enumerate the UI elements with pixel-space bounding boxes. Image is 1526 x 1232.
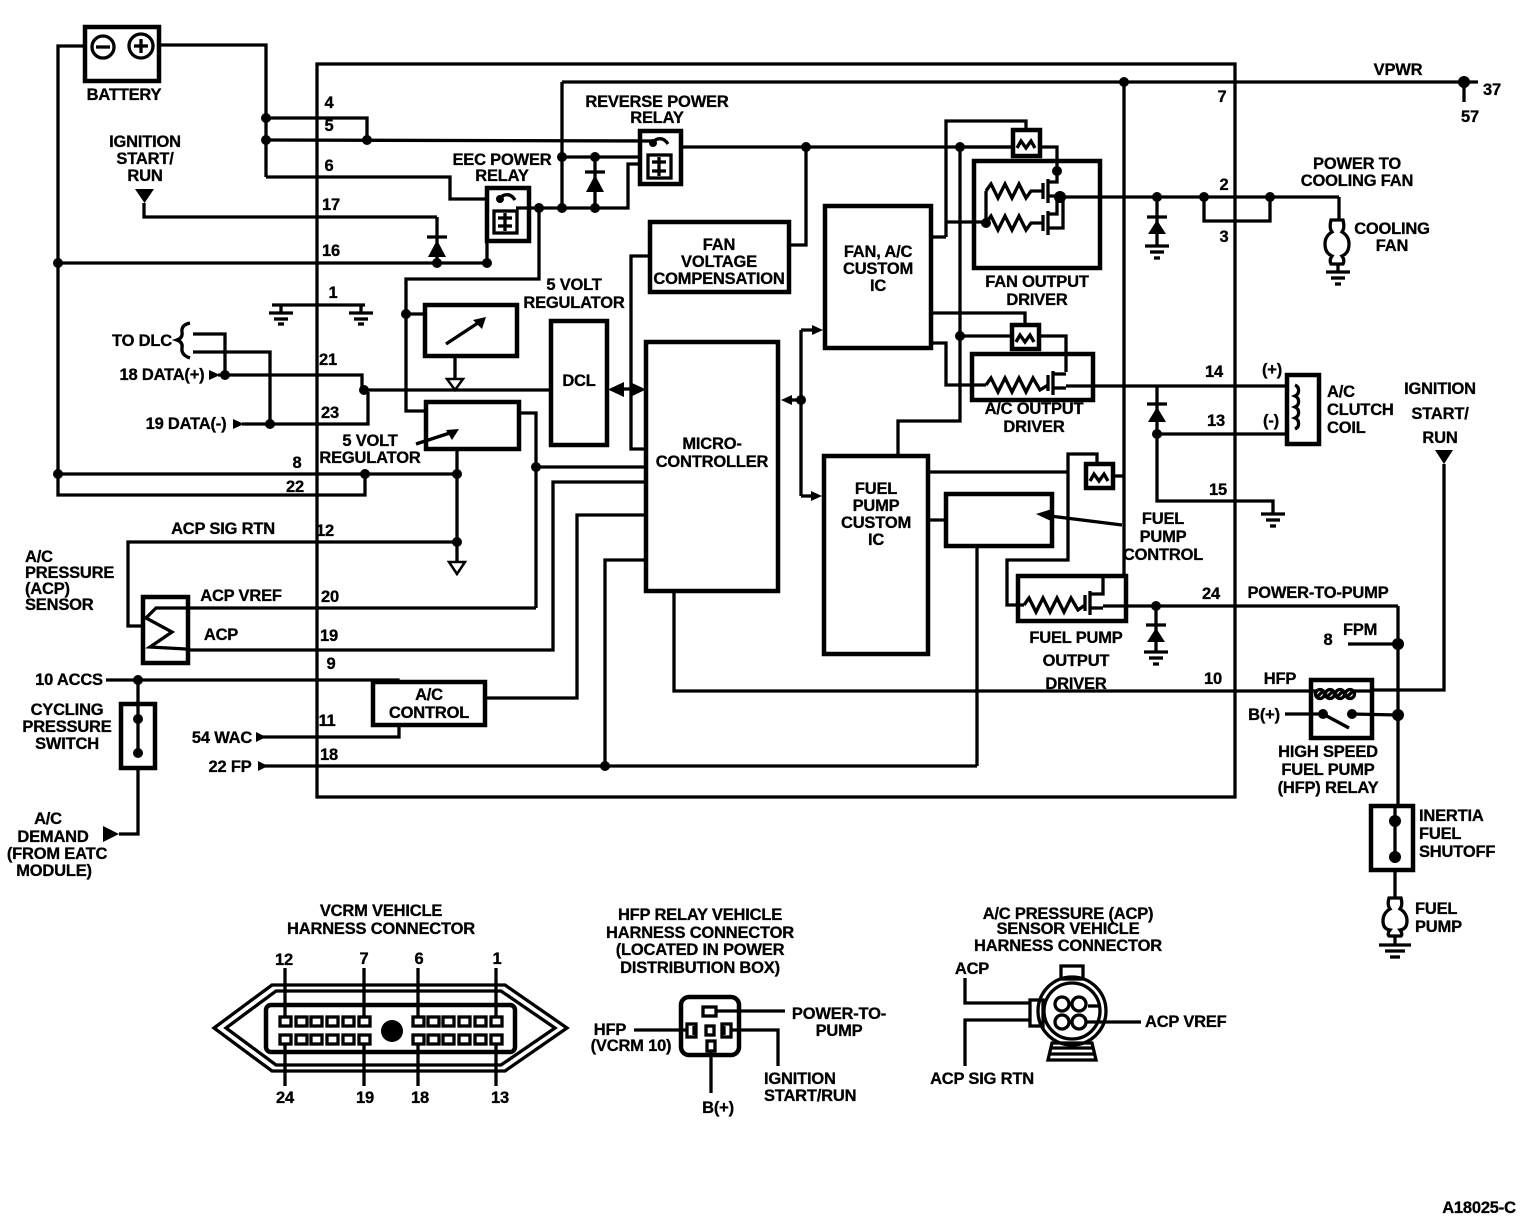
wire sense loop top — [946, 121, 1026, 237]
5 volt regulator U2 — [425, 276, 625, 356]
node driver output — [1054, 191, 1066, 203]
svg-text:8: 8 — [1324, 631, 1333, 649]
wire power-to-pump vertical — [1396, 606, 1399, 806]
svg-text:IC: IC — [870, 277, 886, 295]
wire rail into sense — [960, 334, 1012, 337]
svg-text:MICRO-: MICRO- — [682, 435, 741, 453]
node TO DLC — [112, 323, 190, 358]
transistor Q2 — [1048, 371, 1066, 395]
ground G3 — [1145, 246, 1169, 258]
wire VPWR internal pin 7 — [562, 80, 1478, 83]
node IGNITION START/RUN right — [1404, 380, 1476, 464]
wire pin 4 — [266, 118, 367, 140]
wire regulator2 ground leg — [455, 449, 458, 562]
node ACCS / cycling switch — [133, 675, 143, 685]
node VPWR drop to drivers — [1119, 77, 1129, 87]
pin 24 callout — [276, 1044, 295, 1107]
svg-text:16: 16 — [322, 242, 340, 260]
wire pin 22 loop — [58, 474, 365, 495]
driver box — [972, 354, 1093, 400]
wire FVC to power node — [789, 150, 806, 245]
wire stub to 57 — [1462, 82, 1465, 102]
wire pin 17 ignition feed — [144, 203, 437, 217]
wire pin 15 ground — [1157, 434, 1273, 514]
fuel pump M2 — [1383, 898, 1462, 945]
svg-text:ACP: ACP — [955, 960, 989, 978]
wire pin 24 power to pump — [1103, 604, 1398, 607]
a/c clutch coil L1 — [1287, 375, 1394, 444]
pin 12 callout — [275, 951, 293, 1017]
wire pin 6 to EEC power relay — [266, 177, 487, 199]
svg-text:COOLING FAN: COOLING FAN — [1301, 172, 1413, 190]
svg-text:CONTROL: CONTROL — [389, 704, 469, 722]
pin 13 callout — [491, 1044, 509, 1107]
wire pin 2 power to cooling fan — [1060, 195, 1339, 198]
svg-text:HIGH SPEED: HIGH SPEED — [1278, 743, 1378, 761]
a/c output driver Q2 cluster — [931, 147, 1093, 436]
battery BAT1 — [85, 27, 162, 104]
svg-text:A/C OUTPUT: A/C OUTPUT — [985, 400, 1084, 418]
svg-text:REGULATOR: REGULATOR — [523, 294, 624, 312]
svg-text:RELAY: RELAY — [630, 109, 684, 127]
svg-text:2: 2 — [1220, 176, 1229, 194]
svg-text:RUN: RUN — [127, 167, 162, 185]
5 volt regulator U3 — [319, 402, 519, 467]
high speed fuel pump relay K3 — [1248, 680, 1398, 797]
node reg2 pin8 — [452, 469, 462, 479]
wire pin 8 rail — [58, 472, 457, 475]
svg-text:PUMP: PUMP — [1140, 528, 1187, 546]
node pin8 / pin22 join — [360, 469, 370, 479]
wire DLC lower to DATA- — [193, 352, 270, 424]
svg-text:57: 57 — [1461, 108, 1479, 126]
svg-text:54 WAC: 54 WAC — [192, 729, 253, 747]
node pin3 jog left — [1199, 192, 1209, 202]
node D1 cathode on pin16 rail — [432, 258, 442, 268]
svg-text:13: 13 — [491, 1089, 509, 1107]
svg-text:IC: IC — [868, 531, 884, 549]
svg-text:4: 4 — [325, 94, 335, 112]
svg-text:ACP: ACP — [204, 626, 238, 644]
svg-text:(LOCATED IN POWER: (LOCATED IN POWER — [616, 941, 785, 959]
svg-text:SWITCH: SWITCH — [35, 735, 99, 753]
svg-text:10 ACCS: 10 ACCS — [35, 671, 103, 689]
svg-text:13: 13 — [1207, 412, 1225, 430]
svg-text:18 DATA(+): 18 DATA(+) — [120, 366, 205, 384]
svg-text:POWER TO: POWER TO — [1313, 155, 1401, 173]
wire ignition to HFP relay coil — [1372, 464, 1444, 690]
connector pins top row — [280, 1017, 502, 1026]
wire rail into sense — [960, 145, 1013, 148]
node pin4/pin5 join — [362, 135, 372, 145]
svg-text:7: 7 — [1218, 88, 1227, 106]
sense resistor RS3 — [1086, 464, 1113, 488]
node EEC out / regulator feed — [534, 203, 544, 213]
svg-text:FUEL PUMP: FUEL PUMP — [1029, 629, 1122, 647]
svg-text:DCL: DCL — [562, 372, 595, 390]
wire pin 18 FP — [208, 758, 977, 776]
svg-text:14: 14 — [1205, 363, 1224, 381]
node clamp tap — [1151, 601, 1161, 611]
svg-text:HARNESS CONNECTOR: HARNESS CONNECTOR — [974, 937, 1162, 955]
wire pin 14 a/c clutch — [1066, 384, 1288, 387]
reverse power relay K2 — [585, 93, 728, 184]
ground G5 — [1144, 652, 1168, 664]
svg-text:A/C: A/C — [1327, 383, 1355, 401]
svg-text:24: 24 — [276, 1089, 295, 1107]
node EEC coil return — [482, 258, 492, 268]
resistor R2 — [986, 216, 1043, 230]
wire rail vertical — [958, 147, 961, 336]
node pin8 left rail — [53, 469, 63, 479]
svg-text:FAN OUTPUT: FAN OUTPUT — [985, 273, 1089, 291]
svg-text:22 FP: 22 FP — [208, 758, 251, 776]
resistor R4 — [1024, 598, 1085, 612]
node mosfet drain — [1052, 166, 1062, 176]
svg-text:PUMP: PUMP — [1415, 918, 1462, 936]
transistor Q1a — [1043, 171, 1060, 203]
svg-text:ACP VREF: ACP VREF — [200, 587, 282, 605]
pin number labels right edge — [1205, 88, 1282, 499]
wire into regulator 1 — [406, 312, 425, 315]
fan output driver Q1 cluster — [931, 121, 1100, 309]
svg-text:9: 9 — [327, 655, 336, 673]
svg-text:3: 3 — [1220, 228, 1229, 246]
fuel pump custom IC U8 — [824, 456, 928, 654]
svg-text:7: 7 — [360, 950, 369, 968]
svg-text:MODULE): MODULE) — [16, 862, 92, 880]
svg-text:19 DATA(-): 19 DATA(-) — [146, 415, 227, 433]
svg-text:5 VOLT: 5 VOLT — [546, 276, 601, 294]
sense resistor RS1 — [1013, 130, 1040, 156]
wire sense out — [1039, 336, 1066, 372]
svg-text:19: 19 — [356, 1089, 374, 1107]
diode D5 — [1146, 606, 1166, 652]
node left rail / pin16 — [53, 258, 63, 268]
node FVC feed — [801, 142, 811, 152]
wire regulator 2 feed — [406, 314, 426, 411]
svg-text:CYCLING: CYCLING — [31, 701, 104, 719]
wire pin 20 ACP VREF — [188, 587, 536, 608]
svg-text:START/: START/ — [1411, 405, 1469, 423]
driver box — [974, 161, 1100, 268]
svg-text:COMPENSATION: COMPENSATION — [653, 270, 784, 288]
wire fan IC to loop — [931, 235, 946, 238]
svg-text:FUEL: FUEL — [1419, 825, 1461, 843]
svg-text:IGNITION: IGNITION — [1404, 380, 1476, 398]
svg-text:FAN: FAN — [703, 236, 735, 254]
wire loop to resistor — [946, 220, 984, 223]
cycling pressure switch S1 — [22, 680, 155, 768]
node reg2 sig rtn — [452, 537, 462, 547]
svg-text:FUEL PUMP: FUEL PUMP — [1281, 761, 1374, 779]
wire fan IC gate feed — [931, 343, 986, 385]
wire A/C demand — [119, 768, 138, 834]
svg-text:(HFP) RELAY: (HFP) RELAY — [1278, 779, 1379, 797]
svg-text:HARNESS CONNECTOR: HARNESS CONNECTOR — [606, 924, 794, 942]
svg-text:CLUTCH: CLUTCH — [1327, 401, 1394, 419]
wire wrap to resistor — [1007, 472, 1068, 605]
driver box — [1018, 576, 1126, 621]
node VREF / micro sense — [531, 462, 541, 472]
node driver rail tap — [955, 142, 965, 152]
svg-text:11: 11 — [318, 712, 335, 730]
svg-text:DEMAND: DEMAND — [17, 828, 88, 846]
svg-text:INERTIA: INERTIA — [1419, 807, 1484, 825]
wire pin 13 — [1157, 432, 1288, 435]
node VPWR 37 — [1458, 76, 1470, 88]
wire diode anode jog to reverse relay — [595, 164, 641, 208]
svg-text:1: 1 — [329, 284, 338, 302]
wire micro / fan IC / fuel IC bus — [781, 325, 823, 501]
svg-text:START/: START/ — [116, 150, 174, 168]
A/C pressure sensor labels — [25, 548, 114, 614]
ground G6 — [1379, 945, 1411, 957]
svg-text:POWER-TO-PUMP: POWER-TO-PUMP — [1247, 584, 1388, 602]
svg-text:DRIVER: DRIVER — [1006, 291, 1067, 309]
svg-text:POWER-TO-: POWER-TO- — [792, 1005, 886, 1023]
svg-text:PUMP: PUMP — [853, 497, 900, 515]
wire regulator2 VREF output — [519, 413, 536, 608]
svg-text:HFP: HFP — [1264, 670, 1297, 688]
wire A/C control to microcontroller — [485, 515, 646, 698]
node rail tap — [955, 331, 965, 341]
svg-text:CONTROL: CONTROL — [1123, 546, 1203, 564]
svg-text:A18025-C: A18025-C — [1442, 1199, 1516, 1217]
node relay output — [1392, 709, 1404, 721]
wire reverse relay output — [681, 145, 1013, 148]
node A/C DEMAND arrow — [103, 826, 119, 842]
wire pin 1 internal/external ground — [272, 303, 365, 306]
wire loop top from fan IC — [931, 313, 1025, 326]
svg-text:10: 10 — [1204, 670, 1222, 688]
node DATA+ tap — [220, 370, 230, 380]
wire pin 21 DATA(+) — [120, 366, 362, 390]
svg-text:RUN: RUN — [1422, 429, 1457, 447]
svg-text:SHUTOFF: SHUTOFF — [1419, 843, 1495, 861]
pin 7 callout — [360, 950, 369, 1017]
wire sense out — [1040, 147, 1057, 172]
svg-text:ACP VREF: ACP VREF — [1145, 1013, 1227, 1031]
wire jog to sense top — [1068, 454, 1097, 472]
node clamp diode tap — [1152, 192, 1162, 202]
svg-text:(FROM EATC: (FROM EATC — [7, 845, 108, 863]
wire to fuel pump — [1393, 870, 1396, 898]
svg-text:12: 12 — [275, 951, 293, 969]
wire pin 3 jog — [1204, 197, 1270, 221]
svg-text:(-): (-) — [1263, 412, 1279, 430]
svg-text:22: 22 — [286, 478, 304, 496]
svg-text:19: 19 — [320, 627, 338, 645]
microcontroller U1 — [646, 342, 778, 591]
A/C pressure sensor vehicle harness connector J3 — [930, 905, 1227, 1088]
node IGNITION START/RUN source — [109, 133, 181, 203]
svg-text:FUEL: FUEL — [1415, 900, 1457, 918]
wire battery negative to left rail — [58, 46, 85, 474]
VCRM vehicle harness connector J1 — [214, 902, 567, 1071]
svg-text:B(+): B(+) — [702, 1099, 734, 1117]
svg-text:BATTERY: BATTERY — [87, 86, 162, 104]
wire FP up to micro — [605, 560, 646, 766]
wire gate rail — [984, 191, 987, 223]
wire battery positive — [159, 45, 266, 177]
svg-text:IGNITION: IGNITION — [764, 1070, 836, 1088]
HFP relay vehicle harness connector J2 — [591, 906, 886, 1117]
node FPM tap — [1392, 638, 1404, 650]
node FP to microcontroller — [600, 761, 610, 771]
svg-text:A/C: A/C — [34, 810, 62, 828]
svg-text:DRIVER: DRIVER — [1003, 418, 1064, 436]
svg-text:HFP RELAY VEHICLE: HFP RELAY VEHICLE — [618, 906, 782, 924]
svg-text:18: 18 — [411, 1089, 429, 1107]
svg-text:COOLING: COOLING — [1354, 220, 1430, 238]
svg-text:12: 12 — [316, 522, 334, 540]
wire pin 9 ACCS — [35, 671, 398, 689]
fuel pump control U9 — [928, 494, 1203, 564]
wire to microcontroller — [536, 465, 646, 468]
wire pin 19 ACP — [188, 482, 646, 650]
svg-text:1: 1 — [493, 950, 502, 968]
svg-text:ACP SIG RTN: ACP SIG RTN — [930, 1070, 1034, 1088]
svg-text:START/RUN: START/RUN — [764, 1087, 856, 1105]
resistor R3 — [986, 378, 1048, 392]
wire FVC to microcontroller — [631, 256, 650, 449]
node battery feed pin4 — [261, 113, 271, 123]
svg-text:FAN, A/C: FAN, A/C — [844, 243, 913, 261]
wire EEC relay coil to pin16 — [485, 241, 488, 263]
svg-text:5 VOLT: 5 VOLT — [342, 432, 397, 450]
wire DCL microcontroller data arrows — [608, 382, 646, 397]
svg-text:PRESSURE: PRESSURE — [22, 718, 111, 736]
transistor Q3 — [1085, 577, 1103, 615]
node regulator 1 input — [401, 309, 411, 319]
wire VPWR drop to relay output — [560, 82, 563, 208]
diode D1 pin17 to pin16 — [427, 217, 447, 263]
wire DLC upper to DATA+ — [193, 334, 225, 375]
svg-text:20: 20 — [321, 588, 339, 606]
wire sense to VPWR drop — [1113, 474, 1124, 477]
wire pin 11 WAC — [192, 725, 399, 747]
svg-text:21: 21 — [319, 351, 337, 369]
svg-text:A/C: A/C — [415, 686, 443, 704]
svg-text:(VCRM 10): (VCRM 10) — [591, 1037, 672, 1055]
node pin 13 — [1152, 429, 1162, 439]
svg-text:15: 15 — [1209, 481, 1227, 499]
svg-text:SENSOR: SENSOR — [25, 596, 94, 614]
wire pin 16 ground rail — [58, 261, 487, 264]
svg-text:FAN: FAN — [1376, 237, 1408, 255]
node VPWR drop tap — [557, 152, 567, 162]
svg-text:REGULATOR: REGULATOR — [319, 449, 420, 467]
node EEC out / VPWR drop — [557, 203, 567, 213]
diode D2 — [585, 157, 605, 208]
svg-text:COIL: COIL — [1327, 419, 1366, 437]
svg-text:23: 23 — [321, 404, 339, 422]
svg-text:8: 8 — [293, 454, 302, 472]
sense resistor RS2 — [1012, 325, 1039, 349]
svg-text:DISTRIBUTION BOX): DISTRIBUTION BOX) — [620, 959, 780, 977]
svg-text:18: 18 — [320, 746, 338, 764]
diode D3 to ground — [1147, 197, 1167, 246]
svg-text:CUSTOM: CUSTOM — [843, 260, 913, 278]
svg-text:VPWR: VPWR — [1374, 61, 1423, 79]
svg-text:B(+): B(+) — [1248, 706, 1280, 724]
ACP sensor B1 — [143, 597, 188, 663]
node DATA- tap — [265, 419, 275, 429]
wire regulator1 output arrow — [453, 356, 456, 379]
pin 6 callout — [415, 950, 424, 1017]
main VCRM module box — [317, 64, 1235, 797]
resistor R1 — [986, 184, 1043, 198]
ground G2 right of pin1 — [349, 305, 373, 324]
ground G4 — [1261, 514, 1285, 526]
node diode D2 anode — [590, 203, 600, 213]
svg-text:SENSOR VEHICLE: SENSOR VEHICLE — [997, 920, 1140, 938]
transistor Q1b — [1043, 198, 1063, 235]
wire pin 23 DATA(-) — [146, 392, 368, 433]
svg-text:IGNITION: IGNITION — [109, 133, 181, 151]
fuel pump output driver Q3 cluster — [928, 454, 1126, 693]
svg-text:FUEL: FUEL — [855, 480, 897, 498]
svg-text:VCRM VEHICLE: VCRM VEHICLE — [320, 902, 442, 920]
fan voltage compensation U5 — [650, 222, 789, 292]
svg-text:HARNESS CONNECTOR: HARNESS CONNECTOR — [287, 920, 475, 938]
pin 1 callout — [493, 950, 502, 1017]
wire pin 5 to reverse power relay — [266, 140, 652, 141]
EEC power relay K1 — [452, 151, 551, 241]
svg-text:FPM: FPM — [1343, 621, 1377, 639]
diode D4 — [1147, 386, 1167, 434]
wire VPWR drop to drivers — [1122, 82, 1125, 576]
svg-text:37: 37 — [1483, 81, 1501, 99]
wire rail down to fuel IC — [898, 336, 960, 456]
svg-text:DRIVER: DRIVER — [1045, 675, 1106, 693]
node D2 cathode — [590, 152, 600, 162]
svg-text:CONTROLLER: CONTROLLER — [656, 453, 769, 471]
ACP SIG RTN pin 12 — [128, 520, 457, 626]
DCL U4 — [551, 321, 607, 445]
node battery feed pin5 — [261, 135, 271, 145]
wire regulator feed drop — [406, 208, 539, 314]
svg-text:ACP SIG RTN: ACP SIG RTN — [171, 520, 275, 538]
svg-text:(+): (+) — [1262, 361, 1282, 379]
inertia fuel shutoff S2 — [1371, 806, 1495, 870]
svg-text:TO DLC: TO DLC — [112, 332, 172, 350]
svg-text:17: 17 — [322, 196, 340, 214]
wire EEC relay output node — [516, 206, 595, 209]
node resistor R2 left — [981, 218, 991, 228]
pin 19 callout — [356, 1044, 374, 1107]
wire pin 8 FPM — [1324, 621, 1398, 649]
svg-text:VOLTAGE: VOLTAGE — [681, 253, 757, 271]
wire fuel control to FP line — [975, 546, 978, 766]
wire micro to HFP pin 10 — [674, 591, 1312, 691]
svg-text:RELAY: RELAY — [475, 167, 529, 185]
node DATA junction to DCL — [359, 385, 369, 395]
ground G1 left of pin1 — [269, 305, 293, 324]
cooling fan M1 — [1325, 197, 1430, 284]
A/C control U6 — [373, 682, 485, 725]
svg-text:FUEL: FUEL — [1142, 510, 1184, 528]
svg-text:5: 5 — [325, 117, 334, 135]
fan a/c custom IC U7 — [825, 206, 931, 348]
svg-text:6: 6 — [325, 157, 334, 175]
pin 18 callout — [411, 1044, 429, 1107]
wire fuel IC feed — [928, 470, 1068, 473]
connector pins bottom row — [280, 1035, 502, 1044]
svg-text:PUMP: PUMP — [816, 1022, 863, 1040]
svg-text:6: 6 — [415, 950, 424, 968]
